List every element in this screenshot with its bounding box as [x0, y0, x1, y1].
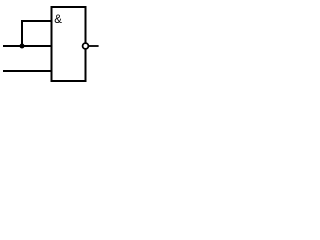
- wire branch A down: [21, 20, 23, 46]
- wire input C (bottom): [3, 70, 52, 72]
- junction dot: [20, 44, 25, 49]
- inversion bubble: [83, 43, 89, 49]
- wire output: [88, 45, 98, 47]
- wire input B (middle): [3, 45, 52, 47]
- NAND gate U1 body: [52, 7, 86, 81]
- wire input A (top): [22, 20, 52, 22]
- svg-text:&: &: [54, 14, 62, 26]
